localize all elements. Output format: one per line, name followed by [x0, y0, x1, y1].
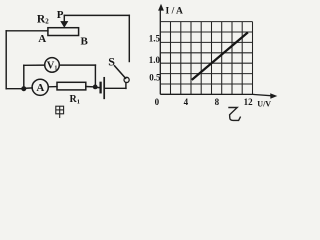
wire top left horizontal	[6, 30, 48, 32]
wire voltmeter branch right vertical	[94, 65, 96, 87]
resistor R1 body	[57, 82, 86, 90]
graph axes	[160, 8, 270, 96]
svg-text:12: 12	[244, 97, 254, 107]
wire ammeter to R1	[48, 86, 57, 88]
voltmeter V1 circle	[45, 58, 60, 73]
wire voltmeter branch left horizontal	[24, 64, 45, 66]
node junction dot right	[93, 85, 98, 90]
wire left node to ammeter	[24, 87, 32, 90]
svg-text:1.0: 1.0	[149, 55, 161, 65]
x axis	[160, 94, 270, 95]
svg-text:1.5: 1.5	[149, 34, 161, 44]
wire below switch	[125, 83, 127, 89]
svg-text:8: 8	[215, 97, 220, 107]
svg-text:0.5: 0.5	[149, 73, 161, 83]
ammeter A circle	[32, 79, 48, 95]
y axis	[159, 8, 161, 94]
svg-text:U/V: U/V	[257, 99, 271, 108]
slider arrow P	[61, 21, 68, 27]
svg-text:A: A	[36, 82, 44, 94]
y axis arrowhead	[158, 4, 164, 11]
svg-text:4: 4	[184, 97, 189, 107]
switch S terminal circle	[124, 77, 129, 82]
wire bottom right horizontal	[105, 87, 126, 89]
svg-text:A: A	[38, 33, 46, 45]
wire left vertical	[5, 31, 7, 89]
svg-text:B: B	[81, 35, 89, 47]
wire voltmeter branch left vertical	[23, 65, 25, 88]
wire voltmeter branch right horizontal	[59, 64, 95, 66]
grid	[160, 22, 252, 95]
node junction dot left	[21, 86, 26, 91]
switch S blade	[115, 66, 126, 79]
wire right vertical to switch	[128, 15, 130, 61]
wire top right horizontal from P	[64, 14, 129, 16]
battery negative plate short	[99, 83, 101, 93]
svg-text:P: P	[57, 9, 64, 21]
label yi (Chinese 乙)	[228, 108, 240, 121]
battery positive plate long	[103, 78, 105, 99]
wire slider P to top	[63, 15, 65, 21]
x axis arrowhead	[270, 93, 277, 99]
resistor R2 rheostat body	[48, 28, 79, 36]
svg-text:0: 0	[155, 97, 160, 107]
wire node to R1	[86, 86, 95, 88]
wire battery to node	[95, 86, 99, 88]
label jia (Chinese 甲)	[56, 106, 64, 118]
svg-text:I / A: I / A	[166, 7, 184, 17]
svg-text:S: S	[108, 55, 115, 69]
wire bottom left horizontal	[6, 88, 24, 90]
data line I-U	[192, 32, 248, 80]
